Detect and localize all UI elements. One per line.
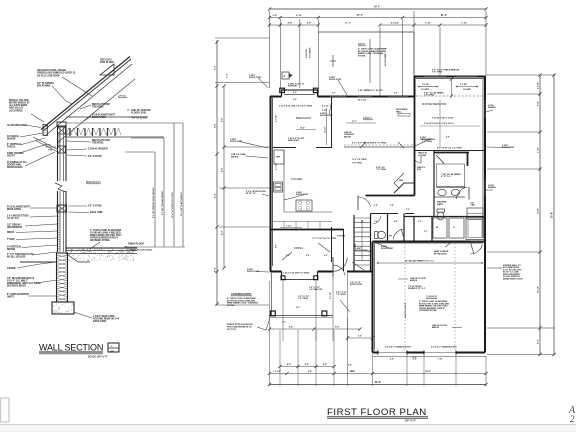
- master interior dim arrows: [420, 86, 436, 88]
- master interior vertical dim: [451, 79, 453, 96]
- svg-text:8'-0" X 8 1/2" LVL 7'-8" OPNG: 8'-0" X 8 1/2" LVL 7'-8" OPNG: [437, 148, 462, 150]
- rear wall window lines: [330, 96, 346, 98]
- breakfast-family wall: [331, 97, 333, 148]
- first floor level line: [125, 246, 185, 248]
- svg-text:FINISH FLOOR: FINISH FLOOR: [128, 244, 144, 246]
- master bedroom top wall: [414, 76, 486, 78]
- right side dim extension lines: [486, 74, 555, 76]
- svg-text:LINE OF CURB 4": LINE OF CURB 4": [404, 302, 407, 318]
- sloped soffit lines: [33, 137, 57, 149]
- svg-text:WALK INCLOSET: WALK INCLOSET: [418, 152, 427, 157]
- svg-text:FIRST FLOOR LEVEL: FIRST FLOOR LEVEL: [130, 250, 153, 252]
- footer background strip: [0, 425, 576, 432]
- svg-text:31'-4": 31'-4": [441, 14, 447, 17]
- svg-text:4'-0": 4'-0": [394, 220, 398, 223]
- svg-text:11'-10": 11'-10": [325, 127, 327, 133]
- roof slope triangle symbol: [100, 64, 114, 75]
- svg-text:2 1/2": 2 1/2": [412, 357, 417, 359]
- svg-text:8'-8": 8'-8": [308, 371, 312, 373]
- svg-text:8'-4": 8'-4": [214, 193, 217, 198]
- svg-text:BREAKFAST: BREAKFAST: [296, 116, 312, 120]
- leader from shingle note to roof: [62, 77, 92, 96]
- svg-text:3'-0" X 7'-10"ENTRY DOOR: 3'-0" X 7'-10"ENTRY DOOR: [350, 282, 363, 286]
- garage door jamb marks: [377, 351, 379, 355]
- svg-text:FAMILY: FAMILY: [363, 116, 372, 120]
- svg-text:TYVEK: TYVEK: [7, 239, 15, 241]
- svg-text:7'-4": 7'-4": [226, 74, 229, 78]
- page footer divider line: [0, 424, 576, 426]
- svg-text:ATTIC: ATTIC: [118, 94, 126, 98]
- breakfast bay bump-out wall: [282, 90, 318, 97]
- svg-text:2 1/2 9'-0" SL GPS 7' 8" OPNG: 2 1/2 9'-0" SL GPS 7' 8" OPNG: [283, 273, 310, 275]
- top overall dimension line 45'-4: [270, 8, 487, 10]
- bath central floor outline: [437, 164, 465, 187]
- bottom garage dims: [373, 356, 487, 358]
- svg-text:5'-0": 5'-0": [296, 307, 300, 309]
- slab edge taper: [66, 254, 90, 263]
- family room beam line: [344, 146, 414, 148]
- rear wall left of bay: [270, 96, 282, 98]
- eave fascia assembly: [43, 125, 48, 136]
- svg-text:A4: A4: [110, 349, 114, 353]
- svg-text:HEAT CENTERIN THE ATTIC: HEAT CENTERIN THE ATTIC: [434, 250, 449, 255]
- svg-text:2 1/2": 2 1/2": [322, 110, 327, 112]
- svg-text:50'-8": 50'-8": [552, 212, 554, 218]
- svg-text:4'-1 1/2": 4'-1 1/2": [322, 105, 329, 108]
- svg-text:1/2" OSB W/HOUSEWRAP: 1/2" OSB W/HOUSEWRAP: [7, 225, 23, 230]
- svg-text:PAN: PAN: [399, 179, 403, 182]
- washer dryer boxes: [433, 218, 447, 238]
- svg-text:BRICK: BRICK: [7, 232, 15, 234]
- svg-text:5'-2": 5'-2": [358, 336, 362, 338]
- covered entry porch slab: [269, 315, 333, 317]
- svg-text:7'-10": 7'-10": [425, 23, 431, 25]
- exterior wall breakfast left: [270, 96, 272, 272]
- rear wall kitchen-family: [318, 96, 415, 98]
- svg-text:9'-8": 9'-8": [446, 137, 450, 139]
- svg-text:2'-10 3/4" 6 1/4" 2'-10 3/4": 2'-10 3/4" 6 1/4" 2'-10 3/4": [432, 117, 454, 120]
- roof shingle line (architectural shingles, double line): [41, 57, 130, 130]
- master bath north wall: [434, 152, 469, 154]
- master bedroom top window: [424, 76, 446, 78]
- window tag symbol breakfast: [282, 72, 289, 79]
- svg-text:GRADE: GRADE: [7, 267, 16, 270]
- bay interior header line: [284, 94, 315, 96]
- svg-text:2'-4 1/2": 2'-4 1/2": [537, 82, 540, 89]
- family door arc: [357, 196, 359, 211]
- svg-text:5'-8": 5'-8": [273, 15, 278, 17]
- dim connector mid: [125, 151, 155, 153]
- svg-text:4'-8": 4'-8": [287, 363, 291, 366]
- svg-text:FOYER: FOYER: [338, 236, 346, 238]
- window sill block: [57, 205, 67, 212]
- svg-text:CLG MNT: CLG MNT: [421, 89, 430, 91]
- left dim extension top: [215, 37, 270, 39]
- svg-text:17'-7" 2 1/2" LVL 7'-8" OPNG: 17'-7" 2 1/2" LVL 7'-8" OPNG: [312, 238, 337, 240]
- wall studs - lower run: [57, 191, 59, 252]
- svg-text:9 1/2" SERIES 8'-9" SL GPS: 9 1/2" SERIES 8'-9" SL GPS: [358, 90, 383, 92]
- svg-text:10'-4": 10'-4": [300, 127, 305, 130]
- svg-text:5'-1": 5'-1": [332, 93, 336, 95]
- svg-text:7'-8" OPNG: 7'-8" OPNG: [352, 163, 362, 165]
- porch posts: [271, 311, 276, 316]
- dining leader diagonals: [318, 243, 330, 252]
- left vertical dimension line: [216, 40, 218, 305]
- dining-foyer-stair vertical wall: [343, 229, 345, 271]
- front door opening and wall to garage: [347, 271, 373, 273]
- first floor slab lines: [66, 247, 137, 249]
- svg-text:4'-8": 4'-8": [221, 168, 224, 172]
- grade line: [20, 261, 57, 263]
- garage walls: [373, 241, 486, 243]
- leader drip edge: [25, 125, 41, 128]
- svg-text:5'-10": 5'-10": [296, 15, 302, 17]
- svg-text:3'-0": 3'-0": [406, 209, 410, 211]
- left dim horizontal connectors: [224, 146, 270, 148]
- svg-text:MASTER BEDROOM: MASTER BEDROOM: [422, 103, 446, 106]
- svg-text:11'-0" X 8" DROP: 11'-0" X 8" DROP: [352, 159, 368, 161]
- svg-text:6'-4": 6'-4": [537, 339, 540, 344]
- master suite dividing wall: [414, 150, 486, 152]
- svg-text:5'-4": 5'-4": [306, 254, 310, 257]
- wall section tag box: [108, 343, 119, 352]
- entry extension verticals: [282, 281, 284, 341]
- garage to house door arc: [470, 240, 484, 242]
- svg-text:11'-7": 11'-7": [345, 23, 351, 25]
- svg-text:1'-6": 1'-6": [282, 322, 286, 324]
- svg-text:2'-8": 2'-8": [390, 359, 394, 361]
- left inner dimension line: [223, 86, 225, 268]
- left edge revision box: [1, 398, 10, 422]
- svg-text:9'-1 1/8" CEILING HEIGHT: 9'-1 1/8" CEILING HEIGHT: [162, 190, 164, 215]
- bedroom center dim vertical: [439, 100, 441, 148]
- attic floor top of plate line: [66, 116, 148, 118]
- svg-text:9'-4": 9'-4": [348, 364, 352, 367]
- wall header with cross bracing: [58, 127, 66, 134]
- kitchen-breakfast counter wall: [273, 147, 297, 149]
- pantry diagonal: [394, 183, 414, 193]
- svg-text:2-2X6 #2 HEADER: 2-2X6 #2 HEADER: [88, 148, 108, 151]
- svg-text:4'-8": 4'-8": [323, 363, 327, 366]
- svg-text:TOP OF PLATE: TOP OF PLATE: [131, 117, 148, 120]
- svg-text:2'-4": 2'-4": [374, 204, 378, 207]
- master toilet: [437, 209, 445, 212]
- svg-text:9'-8": 9'-8": [335, 327, 339, 329]
- bottom dim row 48s: [280, 366, 334, 368]
- stair arrow line: [361, 220, 363, 260]
- svg-text:45'-4": 45'-4": [374, 6, 380, 9]
- right exterior wall: [484, 77, 486, 353]
- family window leaders: [360, 142, 366, 148]
- svg-text:5'-7 1/2": 5'-7 1/2": [330, 292, 332, 299]
- svg-text:9'-8": 9'-8": [222, 118, 224, 122]
- dining front wall left segment: [270, 271, 282, 273]
- kitchen range: [296, 200, 312, 211]
- bath closet wall stub: [467, 153, 469, 167]
- powder toilet: [375, 232, 379, 239]
- svg-text:2'-0 3/4": 2'-0 3/4": [460, 83, 467, 86]
- wall section title underline: [39, 351, 103, 353]
- entry dim row lower short: [348, 337, 373, 339]
- hall bath walls: [413, 217, 415, 242]
- foyer-dining wall: [331, 227, 333, 262]
- dim connector top of plate: [66, 122, 183, 124]
- foyer door arc to dining: [332, 265, 334, 277]
- misc marker near patio: [330, 60, 336, 62]
- wall studs - outer face lines: [57, 126, 59, 181]
- svg-text:3'-1": 3'-1": [424, 231, 428, 233]
- kitchen south counter band: [273, 221, 333, 223]
- master bath door arc: [457, 187, 467, 199]
- right wall window openings: [484, 100, 486, 118]
- svg-text:18'-10": 18'-10": [538, 286, 540, 293]
- svg-text:9'-4": 9'-4": [289, 326, 293, 329]
- kitchen sink: [274, 182, 283, 192]
- foundation wall CMU hatch: [57, 253, 68, 302]
- kitchen counter edge: [283, 150, 285, 212]
- ceiling line to right: [66, 136, 164, 138]
- garage interior column lines: [404, 243, 406, 350]
- patio outline: [318, 32, 414, 96]
- svg-text:8'-0": 8'-0": [222, 231, 224, 235]
- svg-text:4'-4": 4'-4": [288, 22, 293, 25]
- master vanity sinks: [438, 189, 446, 195]
- svg-text:DINING: DINING: [294, 246, 303, 250]
- hall bathtub: [466, 218, 484, 240]
- svg-text:2'-0": 2'-0": [46, 145, 51, 147]
- svg-text:5'-7 1/2": 5'-7 1/2": [276, 163, 278, 170]
- kitchen-dining wall: [270, 229, 344, 231]
- svg-text:STEP DN: STEP DN: [306, 49, 308, 58]
- 2-0 typ eave dimension: [46, 146, 56, 148]
- bottom dim row mid: [270, 328, 361, 330]
- svg-text:SLOPE AWAY: SLOPE AWAY: [384, 52, 387, 66]
- bay corner posts: [280, 88, 285, 92]
- svg-text:1/4"=1'-0": 1/4"=1'-0": [405, 420, 416, 423]
- svg-text:24'-4": 24'-4": [425, 370, 431, 373]
- svg-text:3'-0" X 7'-10"7'-8" OPNG: 3'-0" X 7'-10"7'-8" OPNG: [298, 296, 309, 300]
- svg-text:1/2" GYP BD: 1/2" GYP BD: [88, 156, 102, 158]
- attic insulation zigzag: [66, 128, 121, 135]
- svg-text:7'-10": 7'-10": [437, 359, 442, 361]
- svg-text:2'-8": 2'-8": [374, 221, 378, 223]
- svg-text:WALL SECTION: WALL SECTION: [39, 343, 103, 353]
- roof sheathing line: [46, 64, 132, 135]
- svg-text:2'-0": 2'-0": [324, 255, 328, 257]
- svg-text:9'-0": 9'-0": [293, 99, 297, 101]
- svg-text:CLG MNT: CLG MNT: [463, 89, 472, 91]
- svg-text:8'-4": 8'-4": [214, 267, 217, 272]
- powder door arc: [373, 216, 381, 224]
- svg-text:9' 0" X 5'-0" TRIPLE SLGPS 7'-: 9' 0" X 5'-0" TRIPLE SLGPS 7'-8" OPNG: [352, 143, 387, 145]
- family front wall: [366, 195, 415, 197]
- closet-bath wall: [433, 151, 435, 217]
- wall hatch upper: [58, 135, 61, 136]
- svg-text:SCALE: 3/4"=1'-0": SCALE: 3/4"=1'-0": [88, 356, 108, 359]
- svg-text:13'-8": 13'-8": [538, 208, 540, 214]
- wic door arcs: [414, 157, 421, 163]
- gravel under slab stipple: [124, 254, 127, 257]
- svg-text:2: 2: [570, 414, 575, 424]
- svg-text:5'-6": 5'-6": [215, 65, 217, 70]
- leader ice shield: [31, 114, 44, 122]
- bottom overall dim: [270, 384, 487, 386]
- garage front wall with door openings: [373, 352, 379, 354]
- svg-text:17'-7": 17'-7": [357, 15, 363, 17]
- svg-text:9'-0"X 8'-0" GARAGE DOOR: 9'-0"X 8'-0" GARAGE DOOR: [385, 346, 411, 349]
- footing block: [52, 302, 74, 314]
- bottom extension verticals: [269, 281, 271, 386]
- kitchen refrigerator: [274, 150, 284, 164]
- svg-text:54" BLL/AE SERIES 8' 67" O.C.: 54" BLL/AE SERIES 8' 67" O.C.: [405, 260, 435, 263]
- right outer vertical dimension: [553, 75, 555, 355]
- wall break symbol: [55, 183, 66, 192]
- front wall right of bay: [318, 271, 334, 273]
- stairs to basement: [353, 215, 355, 271]
- svg-text:GARAGE: GARAGE: [426, 295, 437, 299]
- svg-text:16'-9 1/2": 16'-9 1/2": [358, 100, 366, 102]
- roof rafter underside line: [57, 79, 135, 143]
- garage header dim arrows: [379, 262, 481, 264]
- top dimension row 2: [270, 17, 487, 19]
- svg-text:A: A: [284, 75, 286, 78]
- right inner vertical dimension: [539, 75, 541, 355]
- svg-text:7'-10 3/4" CLG AT 9'-1 1/8" X: 7'-10 3/4" CLG AT 9'-1 1/8" X 14' O.C.: [424, 122, 455, 125]
- svg-text:36'-8": 36'-8": [375, 382, 381, 384]
- linen cabinet box: [467, 208, 483, 219]
- svg-text:4'-4": 4'-4": [307, 22, 312, 25]
- svg-text:4'-8": 4'-8": [305, 363, 309, 366]
- svg-text:8'-1 1/8" PRECUT STUD HEIGHT: 8'-1 1/8" PRECUT STUD HEIGHT: [153, 187, 155, 218]
- svg-text:4'-6": 4'-6": [394, 92, 398, 95]
- svg-text:10'-4" x FLOOR TO FLOOR: 10'-4" x FLOOR TO FLOOR: [171, 192, 174, 218]
- front door swing arc: [332, 257, 334, 272]
- svg-text:5'-0": 5'-0": [418, 221, 422, 223]
- dim connector ceiling: [131, 137, 164, 139]
- svg-text:ALUM DRIP EDGE: ALUM DRIP EDGE: [7, 124, 27, 127]
- entry leader diagonals: [352, 262, 364, 270]
- bath tile band: [437, 186, 466, 188]
- svg-text:9'-0": 9'-0": [293, 92, 297, 94]
- hall south wall: [371, 213, 399, 215]
- svg-text:5'-7 1/2": 5'-7 1/2": [276, 115, 278, 122]
- closet door arc to garage: [393, 229, 403, 239]
- svg-text:10'-1 1/8" PLATE HEIGHT: 10'-1 1/8" PLATE HEIGHT: [180, 191, 183, 216]
- svg-text:6'-2 1/2": 6'-2 1/2": [391, 23, 399, 25]
- section height dimension verticals: [154, 152, 156, 247]
- top of wall double plate: [57, 122, 66, 126]
- bottom dim row segments: [270, 373, 487, 375]
- svg-text:9'-4": 9'-4": [537, 101, 540, 106]
- patio step lines: [369, 39, 371, 83]
- svg-text:7'-10": 7'-10": [286, 226, 291, 228]
- svg-text:2'-8" X 7'-10"7'-8" OPNG: 2'-8" X 7'-10"7'-8" OPNG: [336, 292, 347, 296]
- svg-text:KITCHEN: KITCHEN: [291, 177, 303, 181]
- slab concrete speckle hatch: [83, 248, 86, 251]
- svg-text:1/2" GYP BD: 1/2" GYP BD: [88, 206, 102, 208]
- top extension lines: [269, 11, 271, 88]
- front bay corner posts: [281, 276, 285, 280]
- svg-text:9'-0": 9'-0": [276, 244, 278, 248]
- svg-text:TYP: TYP: [48, 150, 53, 152]
- powder room right wall: [387, 214, 389, 242]
- svg-text:7'-10": 7'-10": [461, 23, 467, 25]
- dining bay window bump: [282, 272, 318, 280]
- brick veneer course hatch: [58, 213, 61, 215]
- first floor plan title underline: [327, 416, 428, 418]
- svg-text:17'-7": 17'-7": [352, 121, 357, 123]
- svg-text:BASE TRIM: BASE TRIM: [90, 211, 103, 214]
- svg-text:2 1/2 9'-0" SL GPS 7' 8" X 4'-: 2 1/2 9'-0" SL GPS 7' 8" X 4'-0" OPNG: [279, 105, 313, 108]
- svg-text:TO GRADE: TO GRADE: [309, 47, 312, 58]
- bath door leaf diagonal: [436, 155, 444, 164]
- svg-text:5'-10": 5'-10": [538, 147, 540, 153]
- bedroom dashed ceiling line: [416, 95, 484, 97]
- svg-text:2'-4": 2'-4": [390, 204, 394, 207]
- top dimension row 3: [270, 24, 319, 26]
- svg-text:9'-4": 9'-4": [351, 370, 355, 373]
- leader from sheathing note: [52, 86, 72, 104]
- insulation vertical hatch marks: [69, 128, 71, 136]
- svg-text:9'-0"X 8'-0" GARAGE DOOR: 9'-0"X 8'-0" GARAGE DOOR: [431, 346, 457, 349]
- svg-text:9'-8": 9'-8": [215, 123, 217, 128]
- svg-text:2'-0 3/4": 2'-0 3/4": [422, 83, 429, 86]
- master bedroom step wall: [414, 77, 416, 97]
